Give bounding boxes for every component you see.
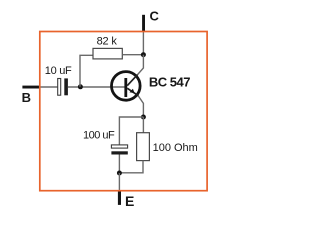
svg-text:BC 547: BC 547 xyxy=(149,75,190,90)
transistor Q1 BC 547 xyxy=(112,72,191,101)
wire: collector node down to transistor xyxy=(137,55,143,75)
svg-text:B: B xyxy=(22,90,31,105)
terminal B xyxy=(22,86,40,106)
capacitor C1 10 uF xyxy=(45,65,72,95)
capacitor C2 100 uF xyxy=(83,130,128,155)
wire: ground node down to E terminal xyxy=(118,173,120,191)
node: emitter ground junction xyxy=(117,171,122,176)
wire: C terminal down to collector node xyxy=(142,32,144,55)
terminal C xyxy=(142,9,159,32)
wire: R1 to collector rail xyxy=(122,54,143,56)
terminal E xyxy=(118,191,134,209)
svg-text:100 Ohm: 100 Ohm xyxy=(153,142,198,154)
wire: cap to base xyxy=(68,86,126,88)
node: collector junction xyxy=(141,52,146,57)
svg-text:10 uF: 10 uF xyxy=(45,65,72,77)
wire: bypass cap down to ground node xyxy=(118,155,120,174)
wire: base node up to R1 xyxy=(80,55,93,87)
resistor R1 82 k xyxy=(93,36,122,59)
svg-text:82 k: 82 k xyxy=(97,36,118,48)
wire: emitter node to R2 xyxy=(142,117,144,133)
wire: emitter to emitter node xyxy=(138,96,143,118)
node: emitter junction xyxy=(141,115,146,120)
node: base junction xyxy=(78,84,83,89)
svg-text:C: C xyxy=(150,9,160,24)
svg-text:100 uF: 100 uF xyxy=(83,130,115,142)
resistor R2 100 Ohm xyxy=(137,133,198,161)
wire: B input to coupling cap xyxy=(40,86,58,88)
wire: R2 down to bottom rail xyxy=(119,161,143,173)
svg-text:E: E xyxy=(125,193,134,209)
wire: emitter node to bypass cap xyxy=(119,117,143,145)
